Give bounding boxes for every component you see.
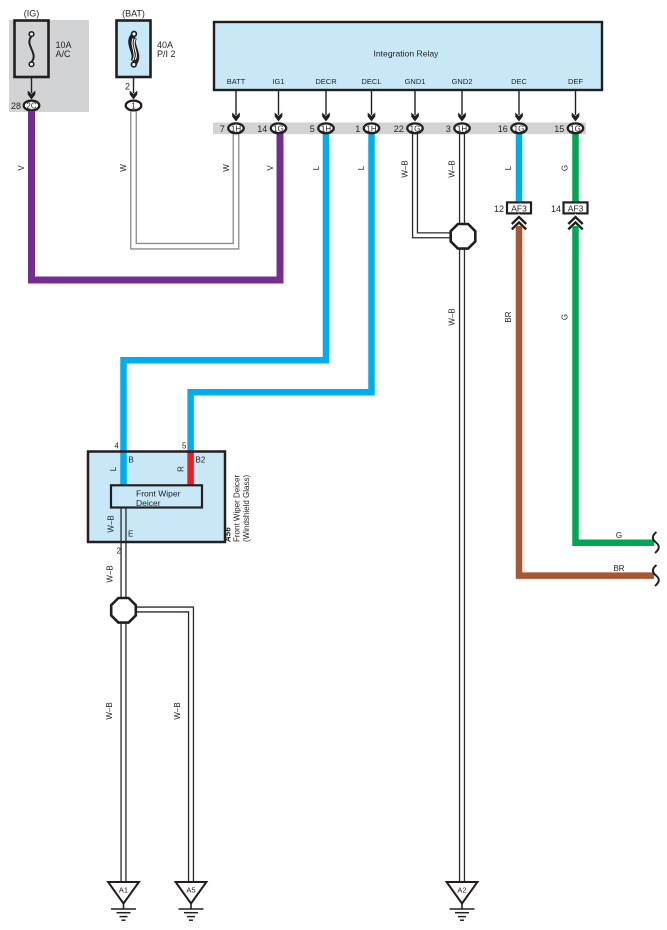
wire color labels mid-page	[448, 308, 570, 325]
svg-text:1G: 1G	[273, 124, 284, 133]
svg-text:1: 1	[131, 102, 135, 111]
svg-text:L: L	[504, 165, 513, 170]
svg-text:L: L	[312, 165, 321, 170]
svg-text:4: 4	[115, 442, 120, 451]
wire G from AF3 down and right	[576, 226, 655, 543]
svg-text:1H: 1H	[366, 124, 376, 133]
svg-text:DEF: DEF	[568, 77, 583, 86]
svg-text:B: B	[129, 456, 134, 465]
ground A2	[447, 882, 478, 920]
svg-text:Front Wiper: Front Wiper	[136, 489, 181, 499]
connector AF3 (DEC)	[507, 202, 531, 213]
connector oval 1	[126, 101, 142, 111]
svg-text:3: 3	[446, 124, 451, 134]
svg-text:W–B: W–B	[107, 515, 116, 532]
svg-text:Front Wiper Deicer: Front Wiper Deicer	[233, 475, 242, 542]
svg-text:W: W	[119, 164, 128, 172]
svg-text:V: V	[266, 165, 275, 171]
pin 28 label	[11, 101, 21, 111]
connector oval 2C	[24, 101, 40, 111]
deicer outer box border	[88, 452, 225, 543]
svg-text:W: W	[222, 164, 231, 172]
svg-text:W–B: W–B	[448, 308, 457, 325]
wire W from fusible link to BATT	[131, 111, 239, 249]
svg-text:A5: A5	[186, 886, 195, 895]
relay pin labels	[227, 77, 584, 86]
svg-text:W–B: W–B	[105, 702, 114, 719]
svg-text:5: 5	[310, 124, 315, 134]
svg-text:AF3: AF3	[511, 203, 527, 213]
svg-text:14: 14	[257, 124, 267, 134]
ground A1	[108, 882, 139, 920]
continuation squiggle G	[653, 532, 659, 553]
wire BR from AF3 down and right	[519, 226, 654, 576]
svg-text:BR: BR	[504, 311, 513, 322]
fuse box (IG)	[15, 21, 49, 78]
fuse symbol 10A A/C	[29, 32, 34, 67]
label (BAT)	[122, 9, 145, 19]
svg-text:5: 5	[182, 442, 187, 451]
wire L from DEC to AF3	[516, 133, 523, 203]
wire V from 2C to IG1	[32, 111, 281, 280]
svg-text:1H: 1H	[231, 124, 241, 133]
svg-text:A/C: A/C	[56, 49, 72, 59]
svg-text:BR: BR	[613, 564, 624, 573]
svg-text:V: V	[17, 165, 26, 171]
deicer pin labels	[109, 442, 206, 472]
svg-text:DECR: DECR	[315, 77, 337, 86]
svg-text:DECL: DECL	[361, 77, 381, 86]
arrow into connector 1	[130, 91, 138, 100]
svg-text:1G: 1G	[514, 124, 525, 133]
wire stub from IG fuse	[31, 77, 33, 93]
wire L from DECR to deicer pin 4	[124, 133, 327, 485]
junction octagon (GND)	[451, 224, 476, 249]
svg-text:W–B: W–B	[448, 160, 457, 177]
svg-text:IG1: IG1	[272, 77, 284, 86]
svg-text:2: 2	[117, 547, 122, 556]
wire G from DEF to AF3	[572, 133, 579, 203]
svg-text:14: 14	[551, 204, 561, 214]
deicer lower labels	[106, 515, 134, 582]
relay pin stubs with arrows	[232, 90, 579, 122]
svg-text:W–B: W–B	[401, 160, 410, 177]
svg-text:28: 28	[11, 101, 21, 111]
svg-text:12: 12	[494, 204, 504, 214]
wire W-B from junction to ground A2	[460, 243, 465, 882]
fusible link box (BAT)	[117, 21, 151, 78]
pin 14 label	[551, 204, 561, 214]
svg-text:Deicer: Deicer	[136, 498, 161, 508]
wire W-B from deicer pin E	[121, 505, 126, 599]
component label A56	[224, 475, 252, 543]
value label 10A A/C	[56, 40, 72, 59]
deicer inner element box	[111, 485, 202, 508]
junction octagon (deicer ground)	[111, 598, 136, 623]
chevron under AF3 (DEC)	[512, 217, 526, 229]
svg-text:L: L	[109, 466, 118, 471]
BR horizontal label	[613, 564, 624, 573]
connector ovals on band	[220, 123, 244, 133]
svg-text:G: G	[616, 531, 622, 540]
svg-text:W–B: W–B	[106, 565, 115, 582]
svg-text:(IG): (IG)	[24, 9, 40, 19]
label (IG)	[24, 9, 40, 19]
wire color labels row under band	[17, 160, 570, 177]
deicer internal red wire pin 5	[187, 452, 194, 486]
svg-text:G: G	[561, 314, 570, 320]
svg-text:R: R	[177, 466, 186, 472]
svg-text:AF3: AF3	[568, 203, 584, 213]
svg-text:E: E	[128, 530, 133, 539]
ground A5	[176, 882, 207, 920]
wire G upper stub behind chevron (DEF)	[572, 218, 579, 228]
svg-text:L: L	[357, 165, 366, 170]
fusible link symbol 40A P/I 2	[131, 32, 136, 67]
svg-text:1G: 1G	[410, 124, 421, 133]
W-B labels on ground runs	[105, 702, 182, 719]
svg-text:P/I 2: P/I 2	[157, 49, 176, 59]
svg-text:W–B: W–B	[173, 702, 182, 719]
integration relay box	[214, 22, 602, 90]
chevron under AF3 (DEF)	[568, 217, 582, 229]
svg-text:1: 1	[355, 124, 360, 134]
svg-text:DEC: DEC	[511, 77, 527, 86]
svg-text:1H: 1H	[321, 124, 331, 133]
svg-text:A56: A56	[224, 527, 233, 543]
G horizontal label	[616, 531, 622, 540]
deicer outer box fill	[88, 452, 225, 543]
gray backdrop behind IG fuse	[9, 20, 89, 112]
svg-text:BATT: BATT	[227, 77, 246, 86]
svg-text:A2: A2	[457, 886, 466, 895]
svg-text:15: 15	[554, 124, 564, 134]
svg-text:22: 22	[394, 124, 404, 134]
wire W-B from GND2 to junction	[460, 133, 465, 230]
wire L from DECL to deicer pin 5	[191, 133, 372, 452]
svg-text:GND2: GND2	[452, 77, 473, 86]
svg-text:A1: A1	[119, 886, 128, 895]
svg-text:GND1: GND1	[405, 77, 426, 86]
wire W-B from junction to ground A1	[121, 622, 126, 882]
svg-text:(BAT): (BAT)	[122, 9, 145, 19]
svg-text:16: 16	[498, 124, 508, 134]
arrow into connector 2C	[28, 91, 36, 100]
wire W-B from GND1 to junction	[413, 133, 452, 238]
svg-text:1H: 1H	[457, 124, 467, 133]
continuation squiggle BR	[653, 565, 659, 586]
svg-text:1G: 1G	[570, 124, 581, 133]
svg-text:2: 2	[125, 82, 130, 92]
wire BR upper stub behind chevron (DEC)	[516, 218, 523, 228]
svg-text:(Windshield Glass): (Windshield Glass)	[242, 475, 251, 542]
wire W-B from junction to ground A5	[133, 607, 193, 882]
wire stub from BAT fuse	[133, 77, 135, 93]
value label 40A P/I 2	[157, 40, 176, 59]
connector AF3 (DEF)	[564, 202, 588, 213]
svg-text:B2: B2	[196, 456, 206, 465]
svg-text:2C: 2C	[27, 102, 37, 111]
pin 2 label	[125, 82, 130, 92]
connector band	[213, 123, 586, 135]
svg-text:G: G	[561, 165, 570, 171]
svg-text:Integration Relay: Integration Relay	[374, 49, 440, 59]
svg-text:7: 7	[220, 124, 225, 134]
pin 12 label	[494, 204, 504, 214]
